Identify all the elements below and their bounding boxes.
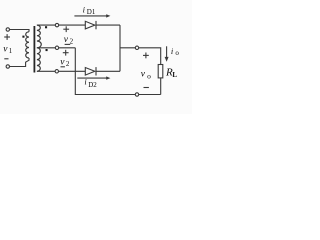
svg-text:L: L (172, 71, 177, 79)
secondary top polarity dot (45, 26, 47, 28)
cathode bus wire (119, 25, 121, 71)
svg-text:o: o (175, 49, 179, 57)
svg-text:1: 1 (9, 47, 13, 55)
plus sign v1 (4, 34, 10, 40)
node d (output + terminal) (135, 46, 138, 49)
wire RL bottom to rail (160, 78, 162, 95)
wire D1 to bus (96, 24, 120, 26)
node c (secondary bottom terminal) (55, 70, 58, 73)
svg-text:v: v (3, 45, 8, 55)
label io with arrow (165, 46, 169, 61)
secondary winding upper half (37, 25, 41, 48)
node e (output - terminal) (135, 93, 138, 96)
wire secondary top to D1 (37, 24, 85, 26)
svg-text:o: o (147, 72, 151, 81)
minus sign v2 lower (61, 66, 65, 68)
node a (secondary top terminal) (55, 23, 58, 26)
label iD1 with arrow (74, 14, 110, 17)
output wire to load (120, 48, 161, 65)
wire terminal1 to primary top (10, 30, 30, 32)
svg-text:v: v (60, 57, 65, 67)
terminal 1 (top-left input) (6, 28, 9, 31)
svg-text:v: v (64, 35, 69, 45)
plus sign vo (143, 53, 149, 59)
svg-text:2: 2 (66, 60, 70, 68)
minus sign v2 upper (65, 43, 71, 45)
center tap return wire (down and to bottom rail) (75, 48, 160, 95)
svg-text:D2: D2 (88, 81, 97, 89)
svg-text:i: i (83, 4, 86, 14)
plus sign v2 lower (63, 50, 69, 56)
secondary lower polarity dot (46, 49, 48, 51)
diode D2 (85, 67, 96, 75)
wire secondary bottom to D2 (37, 70, 85, 72)
diode D1 (85, 21, 96, 29)
wire center tap (37, 47, 75, 49)
minus sign vo (144, 87, 149, 89)
transformer core (33, 26, 35, 73)
terminal 2 (bottom-left input) (6, 65, 9, 68)
wire primary bottom to terminal 2 (10, 58, 30, 67)
node b (center tap terminal) (55, 46, 58, 49)
plus sign v2 upper (63, 26, 69, 32)
svg-text:i: i (171, 46, 174, 56)
secondary winding lower half (37, 48, 40, 72)
label iD2 with arrow (77, 76, 110, 79)
minus sign v1 (4, 58, 8, 60)
primary polarity dot (22, 36, 24, 38)
resistor RL (158, 65, 163, 78)
svg-text:D1: D1 (87, 8, 96, 16)
svg-text:v: v (141, 69, 146, 79)
wire D2 to bus (96, 70, 120, 72)
primary winding P1 (26, 32, 29, 58)
